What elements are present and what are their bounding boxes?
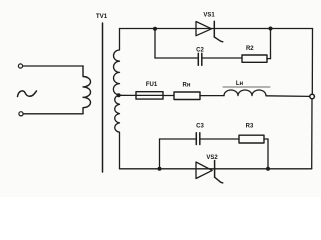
AC source tilde: [18, 91, 37, 97]
inductor Lн: [224, 90, 266, 96]
inductor Lн core bar: [223, 86, 270, 88]
wire: [201, 138, 240, 140]
svg-text:VS2: VS2: [206, 155, 218, 161]
thyristor VS1: [196, 21, 223, 42]
wire C3 branch riser: [159, 139, 161, 169]
node: secondary centre tap: [117, 93, 121, 97]
terminal input bottom: [19, 112, 23, 116]
svg-text:R3: R3: [246, 124, 254, 130]
resistor R2: [242, 55, 267, 62]
thyristor VS2: [196, 161, 223, 183]
fuse FU1: [136, 92, 163, 99]
transformer TV1 secondary winding lower half: [115, 95, 120, 169]
svg-text:FU1: FU1: [146, 82, 158, 88]
node C (bottom-left junction): [158, 167, 162, 171]
svg-text:Lн: Lн: [236, 81, 244, 87]
wire: [160, 138, 196, 140]
svg-text:TV1: TV1: [96, 13, 108, 20]
wire R2 branch riser: [270, 29, 272, 59]
transformer core: [102, 23, 104, 172]
node: output terminal on right rail: [310, 94, 315, 99]
wire: [203, 57, 243, 59]
terminal input top: [18, 64, 22, 68]
wire C2 branch drop: [154, 29, 156, 58]
wire: [200, 95, 224, 97]
resistor R3: [239, 135, 264, 143]
wire top rail: [120, 28, 313, 30]
wire: [264, 138, 268, 140]
svg-text:C2: C2: [196, 48, 204, 54]
wire: [163, 95, 174, 97]
wire right rail lower: [311, 99, 313, 168]
wire R3 branch drop: [267, 139, 269, 169]
wire: [23, 113, 83, 115]
svg-text:VS1: VS1: [203, 13, 215, 19]
node D (bottom-right junction): [266, 167, 270, 171]
wire right rail: [311, 29, 313, 94]
svg-text:Rн: Rн: [183, 83, 191, 89]
wire: [266, 95, 310, 98]
capacitor C3: [196, 133, 200, 145]
node A (top-left junction): [153, 27, 157, 31]
wire load line from centre tap: [119, 94, 136, 96]
wire: [23, 65, 83, 67]
transformer TV1 primary winding: [83, 66, 91, 114]
svg-text:R2: R2: [246, 46, 254, 52]
wire: [267, 58, 271, 60]
transformer TV1 secondary winding upper half: [113, 29, 119, 96]
resistor Rн: [174, 92, 200, 100]
wire bottom rail: [120, 168, 312, 170]
capacitor C2: [198, 53, 202, 65]
node B (top-right junction): [269, 27, 273, 31]
svg-text:C3: C3: [196, 124, 204, 130]
wire: [155, 57, 198, 59]
